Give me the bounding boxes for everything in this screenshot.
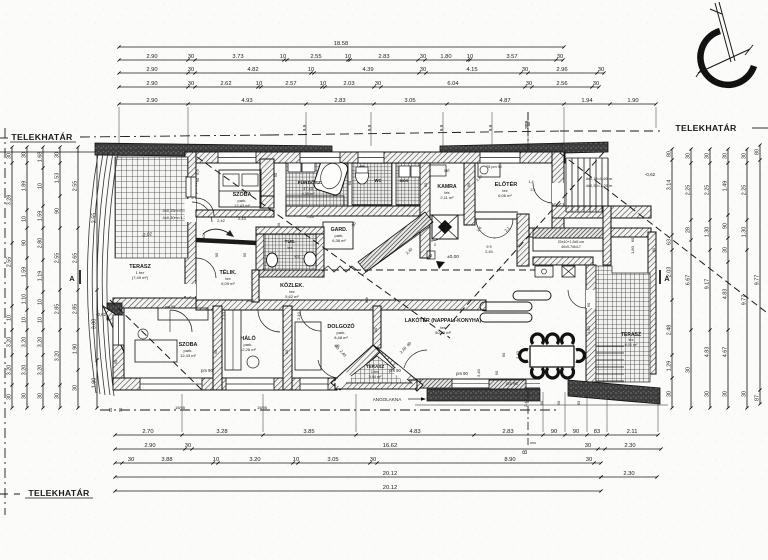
door arc notch right <box>404 350 427 368</box>
left dim col 1 <box>11 147 13 408</box>
ground line bottom <box>415 404 668 406</box>
dimension row 4 top <box>119 86 599 88</box>
room TUS walls <box>256 227 264 277</box>
retaining wall strip top-left dark <box>95 143 332 158</box>
door arc SZOBA-b <box>170 310 192 332</box>
door gap notch left <box>334 371 352 388</box>
dining chairs bottom <box>532 368 544 378</box>
extension lines to top dims <box>305 112 307 146</box>
appliance sink <box>535 266 553 277</box>
label 2 box <box>427 251 435 259</box>
room WC floor <box>352 163 392 205</box>
small gap left wall lower <box>185 284 197 296</box>
door gap left wall <box>185 199 197 222</box>
left dim col 5 <box>77 147 79 408</box>
entry door gap <box>552 183 564 203</box>
door arc notch left <box>318 360 338 378</box>
small line top-left edge <box>0 151 96 153</box>
diagonal wall notch right <box>373 345 423 391</box>
zigzag section break <box>322 266 358 272</box>
terrace right steps <box>596 345 624 347</box>
interior wall top of bedroom row <box>196 300 486 310</box>
kitchen wall stub <box>517 214 529 266</box>
wall SZOBA-TELIK <box>196 210 274 217</box>
kitchen wall band below counter <box>533 257 593 265</box>
window 5 <box>226 378 274 390</box>
bottom retaining strip dark <box>568 380 660 404</box>
top exterior wall <box>185 152 565 163</box>
retaining wall strip top-right dark <box>440 142 608 156</box>
wall DOLGOZO right <box>373 306 381 348</box>
parapet pier 1 <box>420 379 452 388</box>
closet HALO right <box>295 322 321 370</box>
bottom wall under notch <box>335 380 417 389</box>
left dim col 6 <box>96 147 98 408</box>
wall below ELOTER thin <box>469 211 518 213</box>
left dim col 3 <box>42 147 44 408</box>
double door arcs ELOTER <box>476 219 495 238</box>
dimension row 5 bottom <box>115 490 601 492</box>
roof dashed left diagonal <box>197 157 450 338</box>
roof dashed horizontal <box>310 269 535 271</box>
left exterior wall lower block <box>113 298 124 390</box>
terrace left curves <box>102 152 113 395</box>
boundary dash-dot above bottom dims <box>100 409 560 411</box>
wall SZOBA-HALO <box>213 306 222 390</box>
left dim col 2 <box>26 147 28 408</box>
kitchen diagonal counter <box>358 212 433 272</box>
boiler square <box>432 215 458 239</box>
terrace right grid <box>596 266 650 382</box>
terrace left grid <box>115 157 188 258</box>
room FURDOSZ floor <box>286 163 348 208</box>
window 7 <box>186 177 196 197</box>
left wedge wall <box>103 306 124 352</box>
desk SZOBA bottom <box>135 340 177 362</box>
window 2 <box>358 152 384 163</box>
wall below FURDOSZ <box>286 206 426 216</box>
bottom wall under LAKOTER thin parapet <box>415 378 540 380</box>
left dim col 4 <box>59 147 61 408</box>
room GARD <box>323 222 353 249</box>
window 4 <box>140 378 202 390</box>
wardrobe HALO <box>225 310 241 370</box>
right dim col 5 <box>746 149 748 408</box>
sink TUS <box>304 252 316 266</box>
compass north arrow <box>700 31 754 85</box>
far right wall <box>648 232 656 374</box>
right dim col 4 <box>727 149 729 408</box>
wall KAMRA left <box>420 163 430 258</box>
roof dashed right diagonal <box>440 152 604 335</box>
terrace notch grid <box>342 356 412 383</box>
room MOS floor <box>396 163 424 205</box>
door gap kitchen wall <box>586 290 596 308</box>
dining chair right <box>576 350 584 362</box>
right dim col 3 <box>709 149 711 408</box>
right dim col 1 <box>671 149 673 408</box>
door arc terrace left wall <box>192 202 212 222</box>
dining chair left <box>520 350 528 362</box>
door arc entry <box>533 183 552 203</box>
dimension row 2 bottom <box>115 448 661 450</box>
dimension row 3 top <box>119 72 604 74</box>
window 8 <box>113 315 124 345</box>
wall HALO-DOLGOZO <box>283 306 292 390</box>
toilet TUS <box>267 253 278 267</box>
toilet WC <box>356 166 369 184</box>
room SZOBA top right wall <box>260 159 274 208</box>
kitchen counter right <box>533 228 610 238</box>
dining chairs top <box>532 334 544 344</box>
right dim col 6 <box>759 145 761 404</box>
right dim col 2 <box>690 149 692 408</box>
ramp arrow <box>203 229 230 234</box>
coat closet ELOTER <box>478 163 500 177</box>
dimension row 3 bottom <box>115 462 601 464</box>
door arc TELIK <box>196 258 216 278</box>
closet SZOBA bottom top <box>158 308 208 320</box>
right exterior wall of LAKOTER <box>586 265 596 382</box>
kitchen island bars <box>480 302 532 311</box>
door arc SZOBA top <box>196 198 214 216</box>
door arc KAMRA <box>431 225 447 241</box>
kitchen right wall <box>603 206 611 265</box>
window 6 <box>300 378 328 390</box>
entry stairs <box>565 158 567 212</box>
boundary dash top-center <box>270 131 560 135</box>
kitchen top wall right <box>520 228 651 237</box>
angolakna dark block <box>427 389 540 401</box>
sink FURDOSZ <box>288 163 301 172</box>
bed in SZOBA top <box>219 170 261 207</box>
left retaining block dark <box>107 303 122 320</box>
diagonal wall notch left <box>331 345 381 390</box>
dimension row 18.58 (overall width) <box>119 46 564 48</box>
dimension row 2 top <box>119 59 563 61</box>
parapet pier 2 <box>489 380 526 389</box>
right wall of ELOTER <box>552 152 564 232</box>
slope arrow triangle <box>436 261 445 269</box>
top wall of lower-left block <box>113 298 196 308</box>
furdosz tile band <box>286 196 344 206</box>
door gap notch right <box>392 365 410 382</box>
bottom exterior wall left part <box>113 378 337 390</box>
room TUS floor <box>264 234 316 270</box>
wall below stairs <box>552 206 651 218</box>
wall TELIK-KOZLEK stub <box>252 270 259 302</box>
extension lines to bottom dims <box>542 392 544 432</box>
bathtub FURDOSZ <box>312 156 349 196</box>
dimension row 1 bottom <box>115 434 658 436</box>
ramp edge thick band <box>196 240 278 244</box>
boundary dash-dot left vertical <box>4 128 6 515</box>
extension lines top dims to plan <box>118 107 120 145</box>
room KAMRA <box>430 163 464 215</box>
dimension row 4 bottom <box>115 476 601 478</box>
boundary dash-dot top-left <box>0 137 8 139</box>
appliance dishwasher <box>562 266 575 277</box>
roof dashed left lower <box>110 300 202 390</box>
roof dashed right to corner <box>560 153 766 312</box>
wall KAMRA right <box>464 163 475 225</box>
dimension row 5 top <box>119 103 656 105</box>
door arc DOLGOZO <box>300 310 321 331</box>
window 0 <box>218 152 256 163</box>
section line B dashes <box>527 112 529 150</box>
door arc HALO <box>258 310 280 332</box>
window 1 <box>300 152 340 163</box>
washer MOS <box>399 166 410 177</box>
left exterior wall upper <box>185 152 196 305</box>
window 3 <box>480 152 520 163</box>
dining table <box>530 346 574 367</box>
